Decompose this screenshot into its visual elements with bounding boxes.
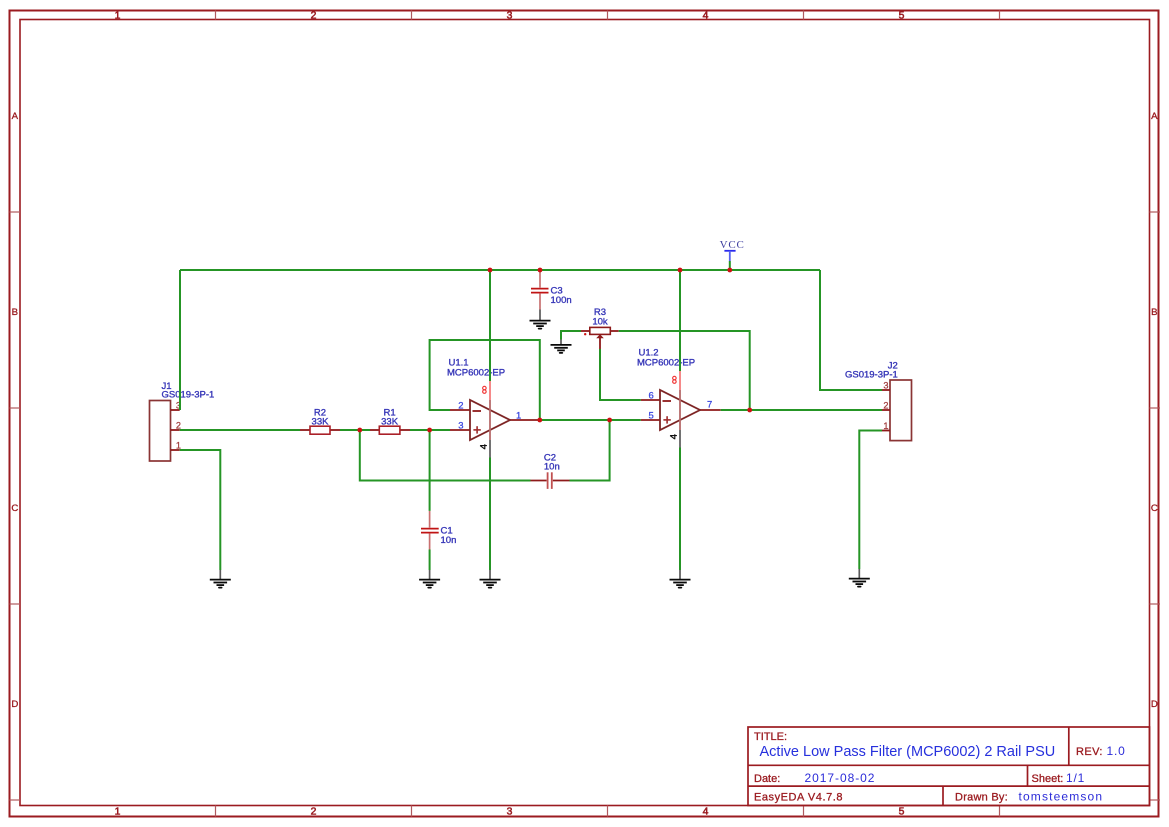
- wire R1 to U1.1 pin 3: [410, 429, 450, 431]
- U1.1 triangle body: [470, 400, 510, 440]
- svg-text:2: 2: [311, 807, 317, 818]
- svg-text:VCC: VCC: [720, 239, 745, 251]
- wire node R2-R1 down to C2: [360, 430, 531, 481]
- U1.2 pin number 4: [670, 434, 677, 439]
- R2 right lead: [330, 429, 340, 431]
- wire R2 to R1: [340, 429, 370, 431]
- J2 body: [890, 380, 912, 441]
- node U1.1 output / feedback: [537, 418, 542, 423]
- svg-text:5: 5: [899, 11, 905, 22]
- U1.2 pin 5 (non-inverting input): [641, 419, 660, 421]
- U1.2 pin number 8: [673, 376, 677, 383]
- C3 bottom lead: [539, 294, 541, 310]
- ground (R3 left): [551, 340, 572, 353]
- svg-text:1: 1: [883, 421, 888, 431]
- node C2 / U1.2 pin5: [607, 418, 612, 423]
- J2 pin 1: [882, 430, 890, 432]
- power flag VCC: [720, 239, 745, 270]
- svg-text:10n: 10n: [441, 535, 457, 546]
- svg-text:GS019-3P-1: GS019-3P-1: [162, 390, 215, 401]
- ground (U1.2 pin 4): [670, 570, 691, 588]
- R2 left lead: [300, 429, 310, 431]
- wire J1 pin 2 to R2: [180, 429, 300, 431]
- ground (C1): [419, 570, 440, 588]
- U1.2 minus sign: [663, 400, 672, 402]
- R2 body: [310, 426, 330, 434]
- wire U1.1 pin 4 to ground: [489, 458, 491, 571]
- R1 body: [379, 426, 400, 434]
- wire output node up to R3 right: [619, 331, 750, 410]
- R3 right lead (pin 3): [610, 330, 618, 332]
- op-amp U1.2 MCP6002-EP: [637, 347, 721, 447]
- U1.2 plus sign: [663, 419, 670, 421]
- wire node to C1: [429, 430, 431, 511]
- svg-text:10n: 10n: [544, 461, 560, 472]
- capacitor C2 10n: [531, 453, 570, 489]
- svg-text:1: 1: [115, 807, 121, 818]
- C2 left lead: [531, 480, 547, 482]
- svg-text:5: 5: [899, 807, 905, 818]
- svg-text:7: 7: [707, 400, 712, 411]
- node R1 / U1.1 pin3 / C1: [427, 428, 432, 433]
- svg-text:MCP6002-EP: MCP6002-EP: [447, 367, 505, 378]
- U1.2 pin 6 (inverting input): [641, 399, 660, 401]
- wire J1 pin 1 to ground: [180, 450, 221, 570]
- svg-text:REV:: REV:: [1076, 746, 1103, 758]
- U1.1 pin 2 (inverting input): [450, 409, 470, 411]
- svg-text:1/1: 1/1: [1066, 771, 1085, 785]
- svg-text:B: B: [12, 307, 18, 318]
- svg-text:1: 1: [115, 11, 121, 22]
- C2 plates: [547, 472, 549, 489]
- svg-text:MCP6002-EP: MCP6002-EP: [637, 357, 695, 368]
- C1 plates: [421, 528, 439, 530]
- R3 wiper arrow (pin 2): [596, 334, 604, 338]
- J2 pin 3: [882, 389, 890, 391]
- svg-text:6: 6: [649, 391, 654, 402]
- svg-text:2: 2: [883, 401, 888, 411]
- node rail / C3: [538, 268, 543, 273]
- U1.2 triangle body: [660, 390, 700, 430]
- svg-text:10k: 10k: [592, 317, 608, 328]
- svg-text:GS019-3P-1: GS019-3P-1: [845, 370, 898, 381]
- svg-text:A: A: [12, 111, 19, 122]
- ground (C3): [530, 310, 551, 329]
- U1.1 minus sign: [473, 410, 482, 412]
- svg-text:1: 1: [516, 411, 521, 422]
- svg-text:C: C: [11, 503, 18, 514]
- resistor R1 33K: [370, 408, 410, 435]
- connector J2: [845, 360, 912, 440]
- svg-text:D: D: [11, 699, 18, 710]
- wire J2 pin 1 to ground: [859, 431, 882, 570]
- R1 right lead: [400, 429, 410, 431]
- wire R3 wiper to U1.2 pin 6: [600, 349, 641, 400]
- U1.1 pin 8 (V+): [489, 380, 491, 400]
- wire VCC rail to J2 pin 3: [820, 270, 882, 390]
- svg-text:C: C: [1151, 503, 1158, 514]
- svg-text:Date:: Date:: [754, 773, 780, 785]
- title block: [748, 727, 1150, 806]
- R3 body: [590, 327, 611, 334]
- wire U1.2 output to J2 pin 2: [721, 409, 882, 411]
- node rail / U1.2 pin8: [678, 268, 683, 273]
- ground (U1.1 pin 4): [480, 570, 501, 588]
- svg-text:Sheet:: Sheet:: [1032, 773, 1064, 785]
- svg-text:3: 3: [883, 380, 888, 390]
- svg-text:2: 2: [458, 401, 463, 412]
- svg-text:D: D: [1151, 699, 1158, 710]
- svg-text:4: 4: [703, 11, 709, 22]
- C1 top lead: [429, 511, 431, 528]
- node R2-R1 / C2: [357, 428, 362, 433]
- C2 right lead: [553, 480, 570, 482]
- wire U1.1 output to U1.2 pin 5: [540, 419, 641, 421]
- potentiometer R3 10k: [581, 307, 619, 349]
- U1.1 pin number 4: [480, 444, 487, 449]
- op-amp U1.1 MCP6002-EP: [447, 357, 539, 457]
- wire C1 to ground: [429, 550, 431, 571]
- U1.1 pin 1 (output): [510, 419, 539, 421]
- wire VCC rail to U1.1 pin 8: [489, 270, 491, 381]
- U1.1 pin number 8: [483, 386, 487, 393]
- U1.1 plus sign: [473, 429, 480, 431]
- U1.1 pin 4 (V-): [489, 440, 491, 458]
- node rail / VCC: [727, 268, 732, 273]
- svg-text:33K: 33K: [312, 416, 330, 427]
- svg-text:5: 5: [649, 411, 654, 422]
- wire VCC top rail: [180, 269, 820, 271]
- svg-text:33K: 33K: [381, 416, 399, 427]
- svg-text:Active Low Pass Filter (MCP600: Active Low Pass Filter (MCP6002) 2 Rail …: [760, 744, 1056, 760]
- svg-text:A: A: [1151, 111, 1158, 122]
- C3 top lead: [539, 270, 541, 288]
- J1 pin 3: [171, 409, 180, 411]
- R1 left lead: [370, 429, 379, 431]
- svg-text:EasyEDA V4.7.8: EasyEDA V4.7.8: [754, 792, 843, 804]
- wire C2 to output node: [570, 420, 610, 481]
- svg-text:B: B: [1151, 307, 1157, 318]
- svg-text:3: 3: [507, 11, 513, 22]
- svg-text:4: 4: [703, 807, 709, 818]
- C3 plates: [531, 288, 549, 290]
- J2 pin 2: [882, 409, 890, 411]
- wire VCC stem: [729, 261, 731, 270]
- U1.2 pin 7 (output): [700, 409, 721, 411]
- capacitor C3 100n: [531, 270, 572, 310]
- wire U1.2 pin 4 to ground: [679, 448, 681, 571]
- node U1.2 output / R3 net: [747, 408, 752, 413]
- svg-text:Drawn By:: Drawn By:: [955, 792, 1008, 804]
- R3 pin 1 marker dot: [584, 333, 586, 335]
- svg-text:TITLE:: TITLE:: [754, 731, 787, 743]
- ground (J2 pin 1): [849, 569, 870, 587]
- svg-text:tomsteemson: tomsteemson: [1019, 790, 1104, 804]
- C1 bottom lead: [429, 534, 431, 550]
- wire VCC rail to J1 pin 3: [179, 270, 181, 410]
- wire VCC rail to U1.2 pin 8: [679, 270, 681, 371]
- svg-text:1.0: 1.0: [1107, 744, 1126, 758]
- R3 left lead (pin 1): [581, 330, 590, 332]
- J1 pin 1: [171, 449, 180, 451]
- resistor R2 33K: [300, 408, 340, 435]
- connector J1: [150, 381, 215, 461]
- U1.1 pin 3 (non-inverting input): [450, 429, 470, 431]
- wire U1.1 feedback loop: [430, 340, 540, 420]
- J1 body: [150, 401, 171, 462]
- node rail / U1.1 pin8: [488, 268, 493, 273]
- svg-text:2017-08-02: 2017-08-02: [805, 771, 876, 785]
- J1 pin 2: [171, 429, 180, 431]
- U1.2 pin 8 (V+): [679, 370, 681, 390]
- U1.2 pin 4 (V-): [679, 430, 681, 448]
- svg-text:2: 2: [311, 11, 317, 22]
- svg-text:100n: 100n: [551, 295, 572, 306]
- wire R3 left to ground: [561, 331, 581, 340]
- capacitor C1 10n: [421, 511, 456, 550]
- VCC bar symbol: [724, 250, 735, 252]
- svg-text:3: 3: [458, 421, 463, 432]
- ground (J1 pin1): [210, 570, 231, 588]
- svg-text:3: 3: [507, 807, 513, 818]
